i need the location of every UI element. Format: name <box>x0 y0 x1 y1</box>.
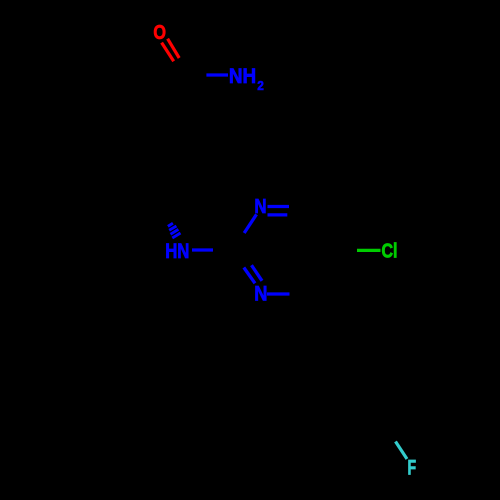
bond N1=C6 double (N half, blue) <box>268 207 290 215</box>
svg-text:F: F <box>408 456 417 479</box>
bond N3-C4 single (N half, blue) <box>267 292 290 295</box>
bond N1-C2 single (N half, blue) <box>244 214 256 233</box>
hashed wedge bond (stereo, N half, blue) <box>168 223 181 238</box>
svg-text:N: N <box>254 282 267 305</box>
bond C=O double bond (O half, red) <box>162 39 180 62</box>
bond C5-Cl (Cl half, green) <box>357 249 381 252</box>
svg-text:NH: NH <box>229 65 256 88</box>
svg-text:HN: HN <box>165 240 189 263</box>
bond C2=N3 double (N half, blue) <box>244 265 262 283</box>
bond C-N amide (N half, blue) <box>206 73 228 76</box>
svg-text:Cl: Cl <box>382 241 398 263</box>
bond HN-C2 (N half, blue) <box>192 248 213 251</box>
svg-text:O: O <box>153 22 166 44</box>
svg-text:2: 2 <box>257 78 264 93</box>
bond C-F (F half, teal) <box>396 442 408 460</box>
